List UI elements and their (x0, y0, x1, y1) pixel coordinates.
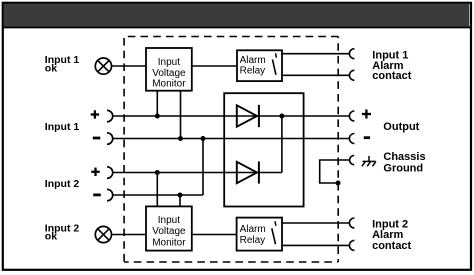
plus sign Input 1 (91, 110, 99, 118)
wire U1 leg to minus rail (180, 91, 182, 139)
terminal arc Input 1 alarm bottom (349, 70, 354, 80)
wire lamp DS2 to U2 (112, 234, 147, 236)
junction U2 plus rail (155, 170, 160, 175)
wire rail minus common to - Output (node V-) (113, 138, 350, 140)
terminal arc Input 2 alarm bottom (349, 240, 354, 250)
svg-text:Input 1: Input 1 (45, 121, 80, 133)
svg-text:Output: Output (383, 121, 419, 133)
plus sign Output (362, 110, 371, 119)
terminal arc Input 2 alarm top (349, 218, 354, 228)
terminal arc Input 1 alarm top (349, 49, 354, 59)
relay K1 contact symbol (273, 53, 277, 75)
svg-text:Alarm: Alarm (240, 224, 266, 235)
diode D1 (237, 105, 259, 127)
wire U2 leg to Input 2 plus rail (156, 173, 158, 207)
wire U2 to K2 (192, 234, 237, 236)
junction U1 plus rail (155, 114, 160, 119)
svg-text:Monitor: Monitor (152, 79, 186, 90)
terminal arc Input 1 plus (107, 110, 113, 122)
wire K2 alarm contact top (282, 222, 349, 224)
svg-text:ok: ok (45, 231, 57, 243)
svg-text:contact: contact (372, 240, 411, 252)
svg-text:Alarm: Alarm (240, 55, 266, 66)
minus sign Input 2 (93, 193, 101, 196)
diode OR box (224, 93, 303, 206)
terminal arc Output minus (349, 134, 354, 144)
minus sign Input 1 (93, 137, 101, 140)
wire U1 leg to plus rail (156, 91, 158, 116)
input voltage monitor U2 (146, 206, 192, 250)
relay K2 contact symbol (272, 221, 276, 244)
dashed module enclosure (124, 37, 338, 263)
label Input 1 Alarm contact (372, 50, 411, 82)
svg-text:Chassis: Chassis (383, 151, 425, 163)
terminal arc Chassis Ground (350, 156, 355, 165)
wire rail Input 1 plus to + Output (node V+) (113, 115, 350, 117)
svg-text:ok: ok (45, 62, 57, 74)
svg-text:Relay: Relay (240, 66, 266, 77)
label Chassis Ground (383, 151, 425, 175)
wire K1 alarm contact bottom (282, 74, 349, 76)
svg-text:Monitor: Monitor (152, 237, 186, 248)
wire U2 leg to Input 2 minus rail (179, 195, 181, 206)
wire chassis ground bracket (320, 160, 350, 183)
terminal arc Input 2 minus (107, 189, 113, 201)
junction chassis to enclosure (336, 181, 341, 186)
wire riser Input 2 minus to minus rail (202, 139, 204, 196)
svg-text:Voltage: Voltage (152, 226, 186, 237)
svg-text:Input: Input (158, 57, 180, 68)
indicator lamp DS1 (Input 1 ok) (95, 58, 111, 74)
header title bar (3, 4, 470, 27)
wire lamp DS1 to U1 (112, 65, 147, 67)
input voltage monitor U1 (146, 48, 192, 91)
chassis ground symbol (362, 156, 376, 166)
plus sign Input 2 (91, 168, 99, 176)
junction U1 minus rail (178, 136, 183, 141)
junction U2 minus rail (178, 193, 183, 198)
wire riser D2 output to plus rail (281, 116, 283, 173)
terminal arc Output plus (349, 111, 354, 121)
wire rail Input 2 minus (113, 194, 203, 196)
wire K1 alarm contact top (282, 53, 349, 55)
svg-text:Input: Input (158, 215, 180, 226)
wire U1 to K1 (192, 65, 237, 67)
diode D2 (237, 161, 259, 183)
label Input 2 ok (45, 222, 80, 242)
minus sign Output (364, 136, 370, 139)
svg-text:Input 2: Input 2 (45, 178, 80, 190)
svg-text:Relay: Relay (240, 235, 266, 246)
junction minus rails (201, 136, 206, 141)
svg-text:Ground: Ground (383, 163, 423, 175)
label Input 1 ok (45, 54, 80, 74)
terminal arc Input 2 plus (107, 167, 113, 179)
svg-text:contact: contact (372, 70, 411, 82)
label Input 2 Alarm contact (372, 219, 411, 252)
wire K2 alarm contact bottom (282, 244, 349, 246)
alarm relay K1 (237, 50, 282, 81)
indicator lamp DS2 (Input 2 ok) (95, 226, 111, 242)
junction diode outputs (279, 114, 284, 119)
wire rail Input 2 plus to diode D2 (113, 172, 282, 174)
terminal arc Input 1 minus (107, 133, 113, 145)
alarm relay K2 (237, 218, 282, 251)
svg-text:Voltage: Voltage (152, 68, 186, 79)
